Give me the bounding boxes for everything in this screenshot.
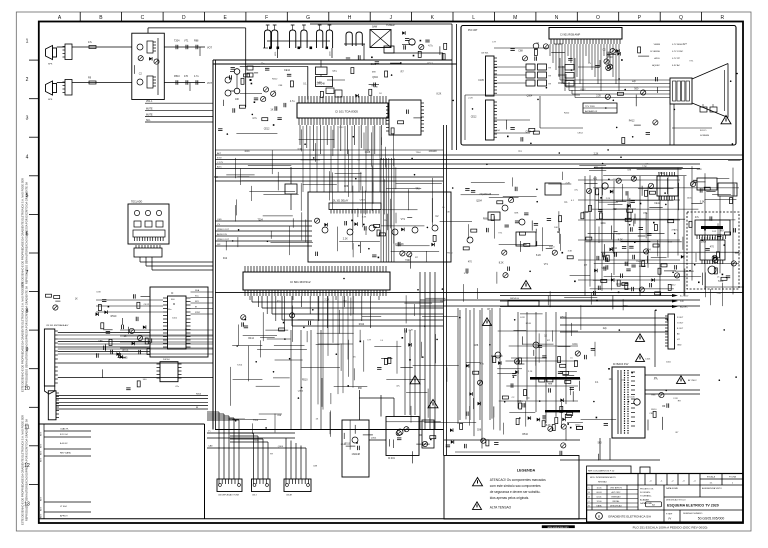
svg-text:C105: C105: [478, 80, 484, 82]
svg-text:D: D: [182, 15, 186, 21]
svg-text:ESQUEMA ELETRICO TV 2920: ESQUEMA ELETRICO TV 2920: [667, 504, 719, 508]
svg-text:Q304: Q304: [527, 95, 533, 97]
svg-text:12.00: 12.00: [596, 501, 602, 503]
svg-text:3.3K: 3.3K: [700, 202, 705, 204]
svg-text:CN 301 ENTRADA A/V: CN 301 ENTRADA A/V: [46, 324, 69, 327]
svg-text:FOCO: FOCO: [700, 130, 707, 132]
svg-text:2.2K: 2.2K: [566, 182, 571, 184]
svg-text:Q304: Q304: [278, 446, 284, 448]
svg-text:D12: D12: [223, 258, 228, 260]
svg-text:R510: R510: [302, 380, 308, 382]
svg-text:G OUT: G OUT: [677, 323, 684, 325]
svg-text:2.2K: 2.2K: [409, 330, 414, 332]
svg-text:R510: R510: [526, 323, 532, 325]
svg-text:2.2K: 2.2K: [594, 153, 599, 155]
svg-text:C105: C105: [629, 396, 635, 398]
svg-text:10K: 10K: [554, 227, 558, 229]
svg-text:R510: R510: [549, 247, 555, 249]
svg-text:VIST APROV: VIST APROV: [610, 487, 623, 490]
svg-text:PCI CRT: PCI CRT: [468, 29, 478, 32]
svg-text:47u: 47u: [88, 41, 93, 44]
svg-text:TOLERANC.: TOLERANC.: [640, 495, 652, 498]
svg-text:SPK: SPK: [48, 99, 53, 101]
svg-text:CAD: CAD: [208, 445, 213, 448]
svg-text:AT 25KV: AT 25KV: [688, 379, 697, 382]
svg-text:10K: 10K: [609, 378, 614, 381]
svg-text:ESTE DESENHO E DE PROPRIEDADE: ESTE DESENHO E DE PROPRIEDADE DA GRADIEN…: [21, 282, 25, 392]
svg-text:10K: 10K: [446, 212, 450, 214]
svg-text:VT1: VT1: [401, 218, 406, 221]
svg-text:REV: REV: [41, 513, 43, 518]
svg-text:2.2K: 2.2K: [673, 398, 678, 400]
svg-text:B OUT: B OUT: [677, 328, 684, 330]
svg-text:Q304: Q304: [372, 77, 378, 79]
svg-text:68K: 68K: [514, 212, 518, 214]
svg-text:CE12: CE12: [427, 63, 433, 65]
svg-text:VT1: VT1: [332, 71, 337, 73]
svg-text:1N4148: 1N4148: [554, 43, 563, 46]
svg-text:T204: T204: [405, 260, 411, 262]
svg-text:T204: T204: [253, 420, 259, 422]
svg-text:REV: REV: [41, 457, 43, 462]
svg-text:1N4148: 1N4148: [352, 453, 361, 456]
svg-text:GND: GND: [677, 345, 682, 347]
svg-text:DESCRICAO TITULO: DESCRICAO TITULO: [666, 499, 686, 502]
svg-text:2.2K: 2.2K: [325, 300, 330, 302]
svg-text:APROV: APROV: [60, 515, 68, 518]
svg-text:Q304: Q304: [494, 130, 500, 132]
svg-text:1N4148: 1N4148: [429, 151, 438, 153]
svg-text:560: 560: [634, 87, 639, 90]
svg-text:VOT: VOT: [207, 82, 212, 85]
svg-text:C88: C88: [477, 429, 482, 431]
svg-text:3.3K: 3.3K: [668, 242, 673, 244]
svg-text:8.2K: 8.2K: [536, 254, 541, 257]
svg-text:C105: C105: [365, 152, 371, 154]
svg-text:CE12: CE12: [264, 129, 270, 131]
svg-text:1N4148: 1N4148: [316, 82, 325, 85]
svg-text:com este simbolo sao componen: com este simbolo sao componentes: [490, 484, 541, 488]
svg-text:de seguranca e devem ser subst: de seguranca e devem ser substitu-: [490, 490, 541, 494]
svg-text:DATA NOME: DATA NOME: [666, 487, 679, 490]
svg-text:8.2K: 8.2K: [440, 301, 445, 303]
svg-text:C88: C88: [344, 186, 349, 188]
svg-text:R412: R412: [359, 324, 365, 326]
svg-text:1K: 1K: [75, 298, 78, 300]
svg-text:2: 2: [26, 77, 29, 83]
svg-text:R510: R510: [607, 56, 613, 59]
svg-text:R510: R510: [560, 317, 566, 319]
svg-text:06.03: 06.03: [596, 492, 602, 494]
svg-text:AUDIO IN: AUDIO IN: [217, 233, 227, 236]
svg-text:T204: T204: [416, 152, 422, 154]
svg-text:L: L: [472, 15, 475, 21]
svg-text:0.7V PP: 0.7V PP: [672, 58, 681, 60]
svg-text:GRADIENTE ELETRONICA S/A: GRADIENTE ELETRONICA S/A: [608, 515, 651, 519]
svg-text:B+ 115V: B+ 115V: [680, 296, 689, 298]
svg-text:TUNER: TUNER: [386, 24, 395, 27]
svg-text:VERM: VERM: [654, 44, 660, 46]
svg-text:INICIAL: INICIAL: [612, 500, 620, 503]
svg-text:100n: 100n: [600, 222, 606, 225]
svg-text:T204: T204: [237, 364, 243, 366]
svg-text:LT 604: LT 604: [60, 506, 67, 508]
svg-text:REPRODUZIDO SEM AUTORIZACAO EX: REPRODUZIDO SEM AUTORIZACAO EXPRESSA POR…: [25, 286, 29, 388]
svg-text:Q304: Q304: [371, 437, 377, 439]
svg-text:4: 4: [26, 154, 29, 160]
svg-text:DESENHO NUMERO: DESENHO NUMERO: [683, 513, 703, 515]
svg-text:VT1: VT1: [643, 212, 648, 215]
svg-text:CI 601 M37212: CI 601 M37212: [290, 280, 311, 284]
svg-text:3.3K: 3.3K: [464, 273, 469, 275]
svg-text:M: M: [513, 15, 517, 21]
svg-text:LEGENDA: LEGENDA: [517, 469, 536, 473]
svg-text:idos apenas pelos originais.: idos apenas pelos originais.: [490, 496, 529, 500]
svg-text:REV: REV: [41, 450, 43, 455]
svg-text:4.7u: 4.7u: [252, 117, 257, 120]
svg-text:VOL 1: VOL 1: [146, 101, 153, 103]
svg-text:Q304: Q304: [476, 201, 482, 203]
svg-text:R412: R412: [670, 284, 676, 286]
svg-text:KEY: KEY: [195, 301, 200, 303]
svg-text:1K: 1K: [270, 109, 273, 112]
svg-text:REV: REV: [41, 496, 43, 501]
svg-text:4.7u: 4.7u: [428, 45, 433, 48]
svg-text:T 601: T 601: [658, 173, 665, 175]
svg-text:R88: R88: [194, 40, 199, 43]
svg-text:68K: 68K: [372, 71, 376, 73]
svg-text:FOLHA: FOLHA: [729, 476, 736, 479]
svg-text:OSD: OSD: [217, 219, 222, 221]
svg-text:3.3K: 3.3K: [568, 251, 573, 253]
svg-text:REF. DOCUMENTOS P 20: REF. DOCUMENTOS P 20: [588, 471, 615, 473]
svg-text:CN DEFLEXAO YOKE: CN DEFLEXAO YOKE: [218, 494, 240, 497]
svg-text:R412: R412: [272, 78, 278, 80]
svg-text:R OUT: R OUT: [677, 317, 684, 319]
svg-text:100n: 100n: [666, 362, 672, 364]
svg-text:CE12: CE12: [575, 425, 581, 427]
svg-text:100n: 100n: [244, 151, 250, 153]
svg-text:560: 560: [598, 442, 603, 445]
svg-text:SAW: SAW: [372, 26, 378, 29]
svg-text:Q304: Q304: [298, 390, 304, 392]
svg-text:A 03.02: A 03.02: [60, 442, 68, 445]
svg-text:CE12: CE12: [580, 89, 586, 91]
svg-text:VT1: VT1: [544, 264, 549, 266]
svg-text:50.GS05.005/000: 50.GS05.005/000: [698, 517, 725, 521]
svg-text:STBY: STBY: [195, 312, 201, 314]
svg-text:REV: REV: [41, 431, 43, 436]
svg-text:10K: 10K: [235, 99, 240, 101]
svg-text:SCL: SCL: [146, 120, 151, 122]
svg-text:T204: T204: [258, 220, 264, 222]
svg-text:MUTE: MUTE: [146, 109, 153, 111]
svg-text:CE12: CE12: [284, 69, 291, 72]
svg-text:H: H: [348, 15, 352, 21]
svg-text:N. DESEN.: N. DESEN.: [640, 492, 651, 494]
svg-text:MUTE: MUTE: [146, 115, 153, 117]
svg-text:CN 901: CN 901: [481, 53, 489, 55]
svg-text:ALTA TENSAO: ALTA TENSAO: [490, 506, 512, 510]
svg-text:3.3K: 3.3K: [96, 291, 101, 293]
svg-text:0.7V SYNC: 0.7V SYNC: [672, 51, 684, 53]
svg-text:AQUEC: AQUEC: [652, 64, 660, 67]
svg-text:DL 101 DELAY: DL 101 DELAY: [333, 200, 349, 203]
svg-text:R510: R510: [341, 444, 347, 446]
svg-text:ALT CIRC: ALT CIRC: [612, 491, 621, 494]
svg-text:SCREEN: SCREEN: [700, 135, 710, 137]
svg-text:REV: REV: [41, 443, 43, 448]
svg-text:REVISAO: REVISAO: [598, 481, 607, 484]
svg-text:47u: 47u: [695, 216, 700, 219]
svg-text:ESCALA: ESCALA: [707, 476, 716, 479]
svg-text:O: O: [596, 15, 600, 21]
svg-text:REV DATA: REV DATA: [60, 452, 71, 455]
svg-text:R9: R9: [549, 76, 551, 78]
svg-text:VIDEO OUT: VIDEO OUT: [217, 239, 230, 241]
svg-text:R412: R412: [564, 113, 570, 115]
svg-text:100n: 100n: [172, 317, 178, 319]
svg-text:CN 2: CN 2: [252, 495, 258, 497]
svg-text:AZUL: AZUL: [654, 57, 660, 60]
svg-text:Q: Q: [679, 15, 683, 21]
svg-text:C 12V: C 12V: [217, 162, 224, 164]
svg-text:B 5V: B 5V: [217, 158, 222, 160]
svg-text:470: 470: [184, 75, 189, 78]
svg-text:R88: R88: [623, 306, 628, 308]
svg-text:4.7u: 4.7u: [194, 75, 199, 78]
svg-text:VIDEO OUT: VIDEO OUT: [217, 229, 230, 231]
svg-text:ESTE DESENHO E DE PROPRIEDADE: ESTE DESENHO E DE PROPRIEDADE DA GRADIEN…: [21, 178, 25, 288]
svg-text:24C04: 24C04: [163, 359, 170, 361]
svg-text:6.3V AC: 6.3V AC: [672, 64, 680, 67]
svg-text:T204: T204: [174, 40, 180, 43]
svg-text:REV: REV: [41, 506, 43, 511]
svg-text:CI: CI: [171, 293, 174, 295]
svg-text:R: R: [720, 15, 724, 21]
svg-text:2.2K: 2.2K: [468, 98, 473, 100]
svg-text:3: 3: [26, 116, 29, 122]
svg-text:24V: 24V: [680, 301, 684, 303]
svg-text:CE12: CE12: [144, 304, 150, 306]
svg-text:B VERDE: B VERDE: [650, 51, 660, 53]
svg-text:F: F: [265, 15, 268, 21]
svg-text:8.2K: 8.2K: [499, 261, 504, 264]
svg-text:2.2K: 2.2K: [343, 237, 348, 240]
svg-text:CI 101 TDA 8305: CI 101 TDA 8305: [335, 110, 358, 114]
svg-text:A62EAK10X: A62EAK10X: [585, 110, 598, 113]
svg-text:CI 901 RGB AMP: CI 901 RGB AMP: [560, 33, 580, 37]
svg-text:PLO 251 ESCALA 100% A PEDIDO: PLO 251 ESCALA 100% A PEDIDO (DOC REV 00…: [633, 526, 708, 530]
svg-text:TECLADO: TECLADO: [131, 201, 142, 204]
svg-text:10.05: 10.05: [596, 488, 602, 490]
svg-text:02.01: 02.01: [596, 497, 602, 499]
svg-text:2.2K: 2.2K: [596, 96, 601, 98]
svg-text:470: 470: [710, 246, 715, 249]
svg-text:100n: 100n: [697, 169, 703, 171]
svg-text:3.3K: 3.3K: [362, 216, 367, 218]
svg-text:MOD. INTERFERENCIA LTD: MOD. INTERFERENCIA LTD: [590, 476, 617, 479]
svg-text:www.esquemas.com: www.esquemas.com: [547, 527, 568, 529]
svg-text:EMISSAO: EMISSAO: [611, 496, 621, 499]
svg-text:C88: C88: [98, 341, 103, 343]
svg-text:R510: R510: [174, 75, 180, 78]
svg-text:SDA: SDA: [195, 289, 200, 292]
svg-text:3.3K: 3.3K: [373, 86, 378, 88]
svg-text:Q304: Q304: [526, 132, 532, 134]
svg-text:VV: VV: [668, 518, 672, 521]
svg-text:DATA: DATA: [596, 505, 602, 508]
svg-text:AFT: AFT: [217, 152, 222, 155]
svg-text:R510: R510: [111, 315, 117, 318]
svg-text:R510: R510: [123, 349, 129, 352]
svg-text:G: G: [306, 15, 310, 21]
svg-text:ESTE DESENHO E DE PROPRIEDADE: ESTE DESENHO E DE PROPRIEDADE DA GRADIEN…: [21, 415, 25, 525]
svg-text:VT1: VT1: [184, 40, 189, 43]
svg-text:P. REF: P. REF: [666, 514, 673, 516]
svg-text:N: N: [555, 15, 559, 21]
svg-text:R9: R9: [549, 68, 551, 70]
svg-text:1N4148: 1N4148: [636, 261, 644, 263]
svg-text:CI 401: CI 401: [388, 458, 395, 460]
svg-text:KB A: KB A: [196, 393, 201, 396]
svg-text:100n: 100n: [701, 241, 707, 244]
svg-text:DATA NOME: DATA NOME: [640, 502, 653, 505]
svg-text:8.2K: 8.2K: [520, 317, 525, 319]
svg-text:68K: 68K: [358, 388, 363, 390]
svg-text:ACABAM.: ACABAM.: [640, 498, 650, 501]
svg-text:ATENCAO! Os componentes marcad: ATENCAO! Os componentes marcados: [490, 478, 546, 482]
svg-text:2.2K: 2.2K: [528, 371, 533, 373]
svg-text:1N4148: 1N4148: [483, 194, 491, 196]
svg-text:R510: R510: [447, 252, 453, 254]
svg-text:FLYBACK FSV: FLYBACK FSV: [613, 363, 629, 366]
svg-text:C: C: [141, 15, 145, 21]
svg-text:C5A6 PL: C5A6 PL: [60, 428, 70, 431]
svg-text:C88: C88: [474, 344, 479, 347]
svg-text:DESCRICAO: DESCRICAO: [610, 505, 622, 508]
svg-text:CN AT: CN AT: [286, 494, 293, 497]
svg-text:C105: C105: [645, 358, 651, 360]
svg-text:AGC: AGC: [217, 166, 222, 169]
svg-text:VOT: VOT: [207, 47, 212, 50]
svg-text:100n: 100n: [167, 309, 173, 311]
svg-text:REPRODUZIDO SEM AUTORIZACAO EX: REPRODUZIDO SEM AUTORIZACAO EXPRESSA POR…: [25, 419, 29, 521]
svg-text:DRIVE H: DRIVE H: [510, 298, 519, 300]
svg-text:R412: R412: [629, 119, 635, 122]
svg-text:R510: R510: [651, 409, 657, 411]
svg-text:R9: R9: [549, 84, 551, 86]
svg-text:TPV 2920: TPV 2920: [585, 106, 596, 108]
svg-text:PROJETO OK: PROJETO OK: [640, 489, 654, 491]
svg-text:2.2K: 2.2K: [606, 198, 611, 200]
svg-text:R412: R412: [248, 338, 254, 340]
svg-text:CE12: CE12: [577, 133, 583, 135]
svg-text:C88: C88: [518, 49, 523, 52]
svg-text:100n: 100n: [572, 343, 578, 346]
svg-text:SPK: SPK: [48, 64, 53, 66]
svg-text:R88: R88: [483, 218, 488, 221]
svg-text:B 12.04: B 12.04: [60, 434, 68, 436]
svg-text:TP2: TP2: [415, 189, 420, 191]
svg-text:8.2K: 8.2K: [437, 93, 442, 95]
svg-text:REPRODUZIDO SEM AUTORIZACAO EX: REPRODUZIDO SEM AUTORIZACAO EXPRESSA POR…: [25, 182, 29, 284]
svg-text:ASSINATURA VISTO: ASSINATURA VISTO: [702, 487, 722, 490]
svg-text:100n: 100n: [687, 198, 693, 200]
svg-text:M: M: [173, 303, 175, 306]
svg-text:R510: R510: [522, 434, 528, 436]
svg-text:Q304: Q304: [360, 200, 366, 202]
svg-text:CE12: CE12: [471, 117, 477, 119]
svg-text:1K: 1K: [124, 335, 127, 338]
svg-text:T204: T204: [718, 280, 724, 283]
svg-text:100n: 100n: [254, 440, 260, 442]
svg-text:1: 1: [26, 39, 29, 45]
svg-text:4.7u: 4.7u: [290, 100, 295, 103]
svg-text:AQUEC: AQUEC: [680, 306, 688, 309]
